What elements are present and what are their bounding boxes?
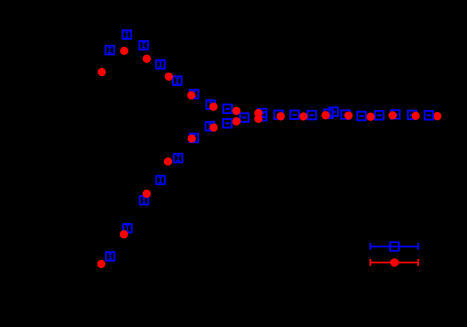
red point lower branch 3 bbox=[143, 190, 151, 198]
red point tail 7 bbox=[388, 111, 396, 119]
legend red errorbar sample line bbox=[370, 259, 418, 266]
red point upper branch 1 bbox=[98, 68, 106, 76]
blue point lower branch 7 bbox=[206, 122, 215, 131]
red point upper branch 5 bbox=[187, 91, 195, 99]
blue point tail 2a bbox=[258, 109, 267, 118]
blue point tail 8 bbox=[357, 112, 366, 121]
legend blue open square bbox=[390, 242, 399, 251]
blue point upper branch 7 bbox=[206, 100, 215, 109]
blue point upper branch 5 bbox=[173, 76, 182, 85]
red point lower branch 7 bbox=[232, 117, 240, 125]
blue point tail 1 bbox=[240, 113, 249, 122]
blue point tail 5 bbox=[308, 111, 317, 120]
red point upper branch 4 bbox=[165, 72, 173, 80]
blue point lower branch 8 bbox=[223, 119, 232, 128]
blue point tail 6b bbox=[329, 107, 338, 116]
red point lower branch 2 bbox=[120, 230, 128, 238]
red point tail x=437 (behind square) bbox=[433, 112, 441, 120]
red point lower branch 1 bbox=[97, 260, 105, 268]
red point lower branch 6 bbox=[210, 123, 218, 131]
red point tail 1b bbox=[254, 115, 262, 123]
legend red filled circle bbox=[390, 258, 399, 267]
blue point upper branch 6 bbox=[190, 90, 199, 99]
blue point tail 12 bbox=[425, 111, 434, 120]
red point tail 8 bbox=[412, 112, 420, 120]
red point tail 5 bbox=[344, 111, 352, 119]
red point lower branch 4 bbox=[164, 157, 172, 165]
blue point lower branch 4 bbox=[156, 176, 165, 185]
blue point lower branch 5 bbox=[174, 154, 183, 163]
blue point tail 9 bbox=[375, 111, 384, 120]
blue point tail 10 bbox=[391, 110, 400, 119]
blue point lower branch 2 bbox=[123, 224, 132, 233]
blue point upper branch 3 bbox=[139, 41, 148, 50]
red point lower branch 5 bbox=[188, 134, 196, 142]
blue point tail 4 bbox=[290, 111, 299, 120]
blue point lower branch 1 bbox=[106, 252, 115, 261]
blue point upper branch 1 bbox=[106, 46, 115, 55]
red point tail 2 bbox=[277, 112, 285, 120]
blue point tail 2b bbox=[258, 112, 267, 121]
red point upper branch 3 bbox=[143, 55, 151, 63]
blue point tail 3 bbox=[274, 111, 283, 120]
red point tail 4 bbox=[321, 111, 329, 119]
blue point upper branch 2 (peak) bbox=[123, 30, 132, 39]
blue point tail 7 bbox=[341, 110, 350, 119]
red point upper branch 2 bbox=[120, 47, 128, 55]
blue point upper branch 4 bbox=[156, 60, 165, 69]
blue point lower branch 3 bbox=[140, 196, 149, 205]
blue point tail 11 bbox=[408, 111, 417, 120]
red point upper branch 7 bbox=[232, 107, 240, 115]
blue point upper branch 8 bbox=[223, 105, 232, 114]
blue point lower branch 6 bbox=[190, 134, 199, 143]
red point tail 6 bbox=[366, 113, 374, 121]
blue point tail 6a bbox=[324, 110, 333, 119]
legend blue errorbar sample line bbox=[370, 243, 418, 250]
red point tail 1a bbox=[254, 109, 262, 117]
red point tail 3 bbox=[299, 112, 307, 120]
red point upper branch 6 bbox=[209, 103, 217, 111]
